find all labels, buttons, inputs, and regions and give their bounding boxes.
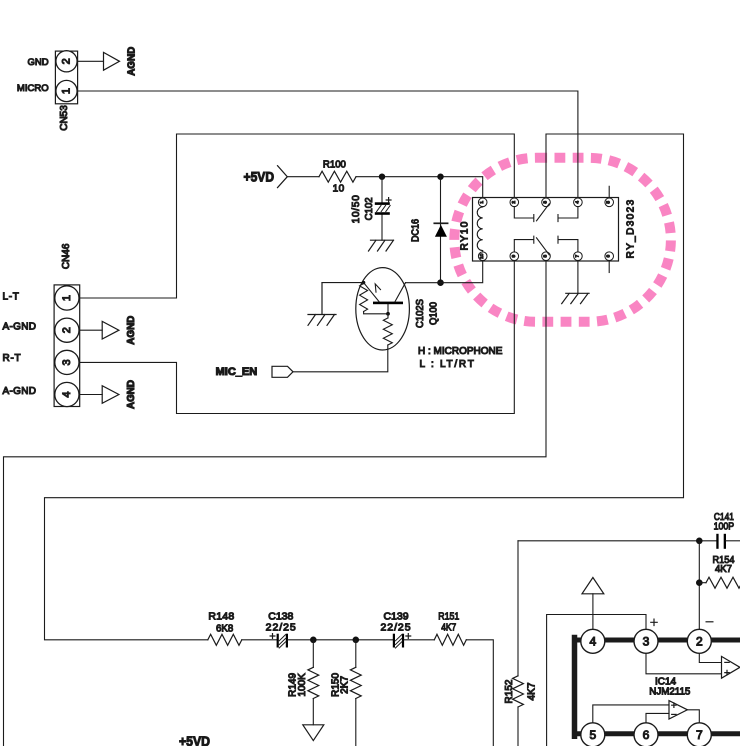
node +5VD/DC16 — [437, 174, 443, 180]
svg-text:2: 2 — [696, 634, 703, 648]
svg-text:10: 10 — [333, 183, 345, 194]
AGND symbol (CN53 pin2) — [104, 46, 138, 75]
wire pin7 to ground — [577, 261, 579, 293]
svg-text:1: 1 — [61, 88, 73, 94]
svg-text:4: 4 — [589, 634, 596, 648]
svg-text:DC16: DC16 — [411, 219, 422, 242]
svg-text:H : MICROPHONE: H : MICROPHONE — [418, 346, 503, 357]
diode DC16 — [411, 177, 448, 283]
svg-text:C102S: C102S — [415, 299, 426, 328]
node R150 — [353, 637, 360, 644]
wire emitter — [322, 282, 364, 284]
pin3 + mark — [651, 619, 657, 625]
wire — [404, 639, 434, 641]
op-amp U1a (right, clipped) — [722, 656, 740, 678]
svg-text:R100: R100 — [323, 160, 346, 171]
svg-text:5: 5 — [589, 728, 596, 742]
svg-text:GND: GND — [27, 57, 48, 68]
transistor Q100 C102S (digital) — [293, 268, 440, 372]
svg-text:22/25: 22/25 — [380, 621, 411, 633]
IC14 labels — [649, 677, 690, 698]
node C141 — [696, 538, 703, 545]
AGND symbol (CN46 pin2) — [102, 315, 137, 344]
svg-text:3: 3 — [61, 359, 73, 365]
capacitor C139 22/25 — [380, 611, 411, 648]
wire CN46 pin2 to AGND — [80, 329, 103, 331]
wire relay pin8 to bottom left — [4, 261, 547, 746]
IC14 pins — [581, 629, 712, 746]
svg-text:4K7: 4K7 — [441, 621, 456, 633]
wire CN53 pin2 to AGND — [78, 60, 104, 62]
svg-text:L-T: L-T — [3, 292, 20, 303]
svg-text:10: 10 — [479, 253, 485, 259]
ground (relay pin7) — [562, 293, 589, 303]
port +5VD — [244, 166, 288, 188]
svg-text:5: 5 — [606, 201, 612, 204]
wire C141 node to IC pin2 — [698, 541, 700, 630]
relay coil RY10 — [477, 207, 482, 252]
svg-text:22/25: 22/25 — [266, 621, 297, 633]
resistor R100 — [319, 160, 356, 195]
pin 6 stub — [608, 261, 610, 273]
resistor R150 — [330, 640, 361, 746]
svg-text:AGND: AGND — [125, 315, 137, 344]
svg-text:2: 2 — [511, 201, 517, 204]
svg-text:1: 1 — [61, 295, 73, 301]
svg-text:4: 4 — [574, 201, 580, 204]
port MIC_EN — [216, 366, 293, 378]
wire — [288, 639, 393, 641]
svg-text:6: 6 — [643, 728, 650, 742]
resistor R149 — [288, 640, 319, 725]
pin 5 stub — [608, 186, 610, 197]
wire op-amp out to pin7 — [687, 710, 699, 723]
svg-text:AGND: AGND — [125, 380, 137, 409]
wire CN46 pin4 to AGND — [80, 394, 103, 396]
wire +5VD rail — [356, 177, 483, 198]
svg-text:100K: 100K — [297, 673, 308, 697]
resistor R148 — [208, 611, 242, 646]
ground (C102) — [369, 240, 394, 251]
AGND symbol (CN46 pin4) — [102, 380, 137, 409]
svg-text:10/50: 10/50 — [351, 194, 362, 223]
op-amp U1b — [669, 701, 687, 719]
resistor R152 — [504, 541, 537, 746]
wire R-T net: CN46 pin3 to relay pin9 — [80, 261, 515, 414]
wire IC14 pin3 to op-amp — [646, 653, 722, 674]
svg-text:C102: C102 — [364, 197, 375, 220]
op-amp IC14 bus — [577, 640, 740, 734]
svg-text:+5VD: +5VD — [179, 733, 210, 746]
svg-text:NJM2115: NJM2115 — [649, 687, 690, 698]
capacitor C138 22/25 — [266, 611, 297, 648]
svg-text:8: 8 — [543, 255, 549, 258]
svg-text:AGND: AGND — [126, 46, 138, 75]
svg-text:CN46: CN46 — [61, 243, 72, 269]
svg-text:RY_D3023: RY_D3023 — [626, 198, 637, 258]
wire L-T net: CN46 pin1 to relay pin2 — [80, 134, 515, 298]
AGND symbol (IC14 pin4) — [582, 578, 604, 630]
node R154 — [696, 579, 703, 586]
svg-text:A-GND: A-GND — [3, 386, 37, 397]
svg-text:100P: 100P — [714, 521, 735, 533]
wire feedback row — [518, 540, 716, 542]
wire pin6 to op-amp - — [646, 713, 669, 722]
svg-text:1: 1 — [479, 201, 485, 204]
resistor R151 — [434, 611, 466, 646]
wire relay pin10 to node — [441, 261, 483, 283]
svg-text:7: 7 — [574, 255, 580, 258]
wire R151 down — [466, 640, 493, 746]
connector CN53 — [17, 51, 78, 131]
relay RY10 RY_D3023 — [473, 198, 619, 262]
svg-text:4K7: 4K7 — [526, 682, 537, 700]
svg-text:RY10: RY10 — [460, 220, 471, 250]
wire collector — [406, 282, 441, 284]
ground (Q100 emitter) — [308, 283, 336, 326]
svg-text:6: 6 — [606, 255, 612, 258]
node +5VD/C102 — [379, 174, 385, 180]
svg-text:2: 2 — [61, 327, 73, 333]
svg-text:+5VD: +5VD — [244, 169, 275, 185]
wire pin5 to op-amp + — [593, 705, 669, 723]
connector CN46 — [3, 243, 80, 406]
wire +5VD to R100 — [287, 176, 319, 178]
node DC16/Q100/relay pin10 — [437, 279, 444, 286]
svg-text:R148: R148 — [208, 611, 234, 623]
svg-text:R152: R152 — [504, 679, 515, 703]
svg-text:6K8: 6K8 — [216, 623, 233, 635]
svg-text:MICRO: MICRO — [17, 83, 49, 94]
wire to IC14 pin3 — [547, 615, 646, 746]
svg-text:3: 3 — [643, 634, 650, 648]
capacitor C141 100P — [714, 511, 740, 549]
svg-text:2: 2 — [61, 58, 73, 64]
note H/L — [418, 346, 503, 370]
svg-text:MIC_EN: MIC_EN — [216, 366, 258, 378]
node C138/R149 — [310, 637, 317, 644]
svg-text:2K7: 2K7 — [340, 675, 351, 693]
svg-text:R-T: R-T — [3, 353, 22, 364]
svg-text:9: 9 — [511, 255, 517, 258]
wire relay pin3 to lower amp input — [45, 134, 684, 640]
svg-text:3: 3 — [543, 201, 549, 204]
svg-text:Q100: Q100 — [429, 302, 440, 325]
svg-text:A-GND: A-GND — [3, 321, 37, 332]
svg-text:4K7: 4K7 — [715, 563, 732, 575]
resistor R154 — [699, 554, 740, 588]
svg-text:CN53: CN53 — [59, 105, 70, 131]
capacitor C102 10/50 — [351, 177, 391, 241]
wire IC14 pin2 to op-amp — [699, 653, 721, 662]
svg-text:L : LT/RT: L : LT/RT — [420, 359, 476, 370]
pin2 - mark — [706, 621, 713, 623]
relay contact top (pins 2-3-4) — [514, 204, 578, 222]
wire — [242, 639, 277, 641]
wire MICRO net: CN53 pin1 to relay pin4 — [78, 91, 578, 198]
relay contact bottom (pins 9-8-7) — [514, 236, 578, 255]
relay highlight ring — [454, 158, 671, 322]
svg-text:4: 4 — [61, 391, 73, 397]
AGND symbol (R149) — [303, 725, 324, 741]
svg-text:7: 7 — [696, 728, 703, 742]
